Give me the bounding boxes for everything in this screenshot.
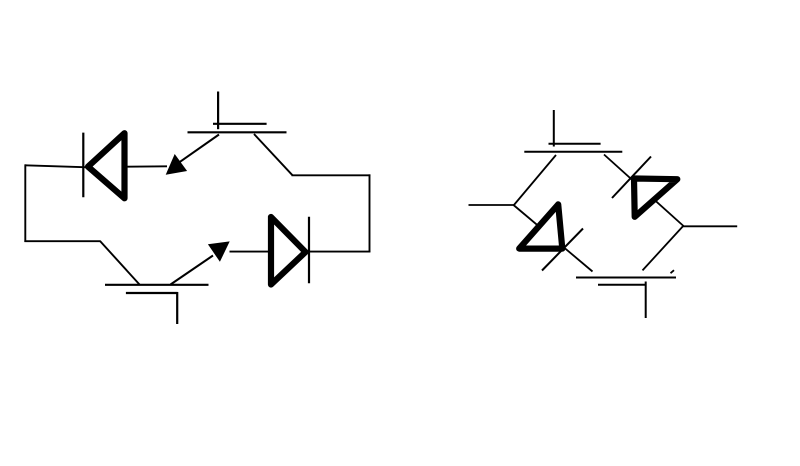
transistor Q4 (bottom of bridge, gate lead down)	[576, 278, 676, 319]
transistor Q3 (top of bridge, gate lead up)	[524, 110, 622, 152]
wire through diode D2	[230, 251, 371, 253]
wire left node to D3	[514, 205, 593, 272]
wire bottom-left horizontal	[24, 240, 100, 242]
cathode bar of D4	[612, 157, 651, 199]
diode D3 (lower-left arm, points down-right)	[519, 204, 562, 248]
transistor Q1 (top, gate lead up)	[188, 92, 287, 133]
transistor Q2 (bottom, gate lead down)	[105, 285, 209, 324]
wire left-top horizontal (to diode D1)	[25, 165, 167, 167]
wire right node to Q4	[643, 226, 684, 271]
wire top-right horizontal	[292, 174, 371, 176]
wire right stub	[683, 225, 737, 227]
wire diagonal from Q1 plate right	[254, 134, 293, 175]
arrow from Q2 to node at D2	[171, 241, 230, 284]
wire diagonal to Q2 plate	[100, 241, 140, 285]
wire left node to Q3	[514, 155, 557, 206]
cathode bar of D3	[542, 229, 583, 271]
diode D2 (points right)	[271, 217, 306, 285]
cathode bar of D2	[308, 217, 310, 284]
wire tick above Q4 plate right end	[671, 270, 675, 273]
wire Q3 to right node (through D4)	[604, 155, 684, 227]
wire left stub (right circuit)	[469, 204, 515, 206]
cathode bar of D1	[82, 133, 84, 198]
diode D1 (points left)	[88, 133, 125, 198]
diode D4 (upper-right arm, points up-left)	[634, 179, 677, 217]
arrow from Q1 to node at D1	[166, 135, 219, 175]
wire right vertical side	[369, 174, 371, 252]
wire left vertical side	[24, 164, 26, 242]
